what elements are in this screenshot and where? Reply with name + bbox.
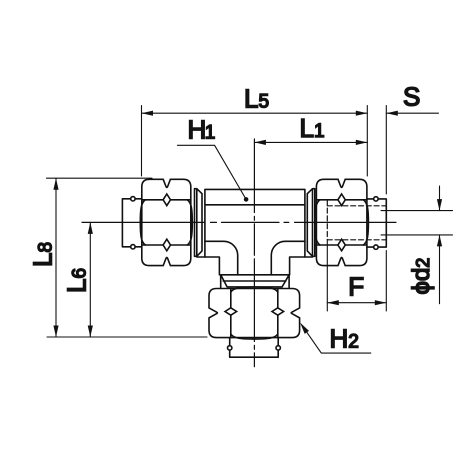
svg-text:L6: L6 — [62, 268, 92, 293]
nut N3 tube stub — [367, 199, 386, 247]
svg-text:L5: L5 — [244, 84, 269, 114]
centerline vertical axis — [253, 139, 255, 367]
nut N1 (left) outline — [142, 179, 191, 265]
nut N2 (bottom) outline — [209, 289, 300, 338]
nut N3 face lines — [316, 200, 367, 245]
dimension line L8 — [55, 178, 57, 337]
dimension d2 extension lines — [381, 211, 453, 235]
stub circles left — [131, 197, 135, 201]
dimension line F — [327, 302, 386, 304]
nut N1 barrel arcs — [140, 200, 192, 245]
dimension F extension right — [385, 251, 387, 312]
nut N2 tube stub — [230, 338, 279, 358]
dimension line L1 — [254, 141, 367, 143]
nut N3 barrel arcs — [315, 200, 369, 245]
nut N2 barrel arcs — [231, 287, 278, 339]
dimension F extension left — [326, 240, 328, 311]
dimension L8 extension top — [47, 177, 153, 179]
nut N3 corner diamonds — [338, 194, 345, 251]
dimension line S tail — [386, 112, 438, 114]
svg-text:S: S — [403, 82, 420, 112]
nut N1 face lines — [142, 200, 191, 245]
body hex — [205, 189, 305, 257]
neck fillet left — [224, 241, 238, 274]
neck fillet right — [271, 241, 285, 274]
dimension line L6 — [89, 222, 91, 337]
svg-text:L1: L1 — [300, 113, 325, 143]
svg-text:F: F — [348, 272, 364, 302]
svg-text:H1: H1 — [188, 114, 216, 144]
nut N2 corner diamonds — [225, 308, 284, 315]
svg-text:H2: H2 — [330, 324, 359, 354]
dimension S extension line — [385, 106, 387, 195]
body lower face line — [205, 240, 305, 242]
hidden tube bore (dashed) — [327, 200, 386, 240]
dimension L5/L1 extension line right — [366, 106, 368, 177]
dimension L5 extension line left — [141, 106, 143, 177]
nut N2 face lines — [231, 289, 278, 338]
stub circles bottom — [228, 346, 232, 350]
nut N1 corner diamonds — [163, 194, 170, 251]
bottom port washer — [221, 275, 289, 288]
nut N1 tube stub — [122, 199, 141, 247]
centerline horizontal axis — [82, 221, 396, 223]
gland washer right — [307, 189, 315, 257]
svg-text:ϕd2: ϕd2 — [408, 258, 435, 295]
nut N3 (right) outline — [316, 179, 367, 265]
gland washer left — [195, 189, 203, 257]
leader H2 — [303, 326, 371, 353]
svg-text:L8: L8 — [28, 242, 58, 267]
bottom extension line — [47, 336, 207, 338]
dimension line L5 — [142, 112, 368, 114]
body bottom edge stubs — [197, 257, 313, 275]
leader H1 — [177, 145, 246, 199]
dimension line d2 — [439, 186, 441, 304]
stub circles right — [374, 197, 378, 201]
